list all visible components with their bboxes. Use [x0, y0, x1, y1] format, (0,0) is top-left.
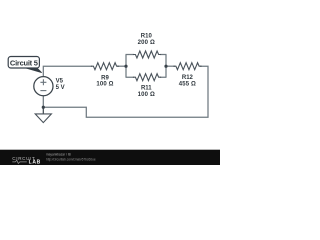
label V5 value [56, 79, 65, 92]
svg-text:200 Ω: 200 Ω [138, 40, 155, 46]
label R9 value [96, 75, 113, 87]
wire: V5 - terminal down to ground node [42, 96, 44, 107]
footer logo waveform [12, 160, 26, 163]
node C: ground junction [42, 106, 45, 109]
wire: parallel right bar [165, 55, 167, 78]
wire: R12 to right edge, down and back along bottom to ground node [43, 66, 208, 117]
svg-text:mayankbazar / IB: mayankbazar / IB [46, 153, 71, 157]
callout Circuit 5 [8, 57, 42, 73]
resistor R12 [173, 63, 201, 70]
footer bar [0, 150, 220, 165]
svg-text:R9: R9 [101, 75, 109, 81]
voltage source V5 [34, 77, 53, 96]
svg-text:R11: R11 [141, 86, 152, 92]
svg-text:5 V: 5 V [56, 85, 65, 91]
label R12 value [179, 75, 196, 88]
label R11 value [138, 86, 155, 99]
resistor R10 [133, 51, 161, 58]
svg-text:R10: R10 [141, 33, 153, 39]
resistor R11 [133, 74, 161, 81]
svg-text:455 Ω: 455 Ω [179, 82, 196, 88]
svg-text:http:⁄⁄circuitlab.com⁄cmalv57b: http:⁄⁄circuitlab.com⁄cmalv57bc66ue [46, 158, 96, 162]
label R10 value [138, 33, 155, 46]
resistor R9 [91, 63, 119, 70]
wire: top-left from V5 + terminal up and right to R9 [43, 66, 92, 77]
svg-text:100 Ω: 100 Ω [138, 92, 155, 98]
svg-text:Circuit 5: Circuit 5 [10, 58, 38, 67]
svg-text:V5: V5 [56, 79, 64, 85]
node A: junction at parallel left bar [124, 65, 127, 68]
wire: parallel left bar [125, 55, 127, 78]
ground [35, 107, 51, 122]
svg-text:LAB: LAB [29, 160, 41, 165]
svg-text:R12: R12 [182, 75, 194, 81]
wire: bottom branch stubs [126, 76, 167, 78]
wire: top branch stubs [126, 54, 167, 56]
wire: right bar to R12 [166, 65, 175, 67]
wire: R9 right lead to parallel left bar [117, 65, 126, 67]
svg-text:100 Ω: 100 Ω [96, 82, 113, 88]
node B: junction at parallel right bar [164, 65, 167, 68]
